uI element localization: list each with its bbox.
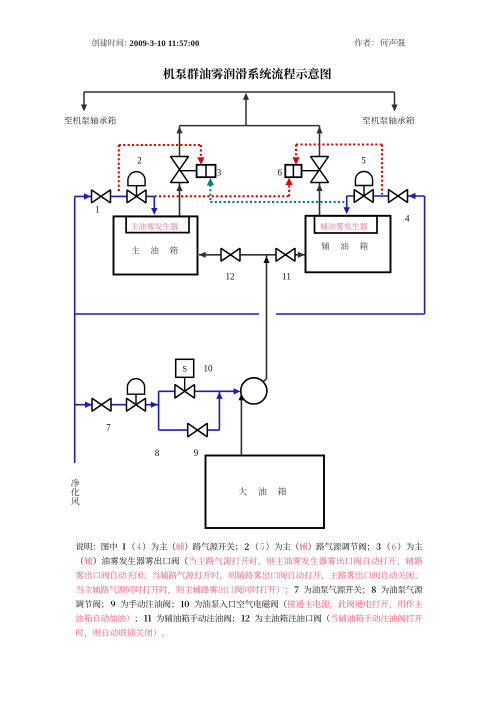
svg-text:1: 1 xyxy=(95,204,100,214)
svg-text:7: 7 xyxy=(106,423,111,433)
svg-text:10: 10 xyxy=(204,364,214,374)
svg-text:9: 9 xyxy=(194,448,199,458)
svg-text:3: 3 xyxy=(217,168,222,178)
svg-text:6: 6 xyxy=(278,168,283,178)
svg-text:5: 5 xyxy=(361,156,366,166)
svg-text:12: 12 xyxy=(226,272,235,282)
svg-text:4: 4 xyxy=(405,214,410,224)
svg-text:11: 11 xyxy=(282,272,291,282)
svg-text:S: S xyxy=(182,364,187,374)
svg-text:2009-3-10 11:57:00: 2009-3-10 11:57:00 xyxy=(130,38,200,48)
svg-text:2: 2 xyxy=(137,156,142,166)
svg-text:8: 8 xyxy=(155,448,160,458)
